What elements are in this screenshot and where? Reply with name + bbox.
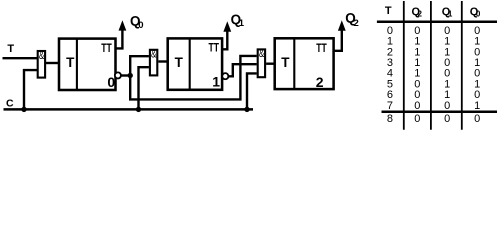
flip-flop FF0 box [59,39,116,90]
svg-text:1: 1 [474,100,480,112]
truth table data column Q1 [444,25,450,125]
wire FF1 Q output stub [222,25,228,49]
svg-text:2: 2 [354,18,359,29]
flip-flop FF0 input divider [76,38,78,91]
wire C branch to gate D3 [247,73,257,109]
and-gate D2 box [150,50,157,76]
svg-text:1: 1 [212,74,220,90]
svg-text:TT: TT [101,41,112,55]
svg-text:T: T [281,55,290,70]
junction dot on C bus at D3 branch [244,107,249,112]
svg-text:0: 0 [414,113,420,125]
wire C branch to gate D2 [139,67,149,109]
and-gate D1 box [38,51,45,78]
truth table header underline [377,20,497,23]
wire Q0-bar stub to node [121,74,130,76]
truth table column separator Q2|Q1 [430,1,432,130]
wire D1 output to FF0 [46,62,59,64]
svg-text:&: & [151,49,157,61]
truth table data column T [387,25,393,125]
arrow Q1 head [223,21,231,31]
svg-text:0: 0 [138,20,143,31]
truth table column separator T|Q2 [403,1,405,130]
wire D3 output to FF2 [266,63,274,65]
svg-text:8: 8 [387,113,393,125]
svg-text:0: 0 [444,100,450,112]
arrow Q0 head [119,20,127,30]
truth table column separator Q1|Q0 [461,1,463,130]
wire FF0 Q output stub [115,24,122,48]
svg-text:T: T [385,5,392,17]
flip-flop FF2 box [275,38,334,89]
junction dot on C bus at D2 branch [136,107,141,112]
svg-text:0: 0 [476,10,481,19]
node T input label [7,43,14,55]
svg-text:T: T [7,43,14,55]
svg-text:&: & [259,48,265,60]
svg-text:TT: TT [209,41,220,55]
wire C clock bus [4,108,254,111]
truth table data column Q2 [414,25,420,125]
flip-flop FF0 inverted output circle [115,72,121,78]
wire FF2 Q output stub [333,25,342,51]
wire Q0-bar riser to gate D2 input 1 [130,56,149,75]
svg-text:7: 7 [387,100,393,112]
junction dot Q0-bar node [128,73,133,78]
truth table data column Q0 [474,25,480,125]
svg-text:0: 0 [414,100,420,112]
wire C branch to gate D1 [24,70,38,109]
flip-flop FF2 input divider [293,38,295,89]
flip-flop FF1 input divider [189,38,191,91]
wire D2 output to FF1 [158,60,167,62]
wire T input line [3,57,39,59]
svg-text:0: 0 [444,113,450,125]
flip-flop FF1 inverted output circle [222,73,228,79]
svg-text:2: 2 [316,74,324,90]
svg-text:TT: TT [316,41,327,55]
wire Q0-bar drop to carry bus A [130,56,257,100]
svg-text:0: 0 [474,113,480,125]
arrow Q2 head [338,20,346,30]
svg-text:T: T [66,55,75,70]
and-gate D3 box [258,49,265,77]
svg-text:1: 1 [239,18,245,29]
svg-text:1: 1 [448,10,453,19]
flip-flop FF1 box [168,38,222,89]
truth table overflow row separator [382,111,497,114]
junction dot on C bus at D1 branch [21,107,26,112]
wire Q1-bar to gate D3 input 2 [228,64,257,76]
svg-text:&: & [39,50,45,62]
svg-text:T: T [175,55,184,70]
svg-text:2: 2 [418,10,423,19]
svg-text:C: C [6,98,14,110]
node C input label [6,98,14,110]
